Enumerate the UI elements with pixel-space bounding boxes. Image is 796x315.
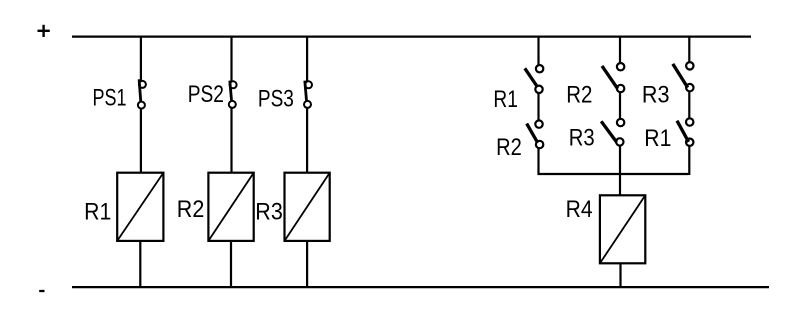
wire right branch2 bottom xyxy=(619,143,621,176)
relay coil R1 xyxy=(117,173,163,241)
contact R3 (branch2 bottom switch) xyxy=(601,119,624,146)
wire branch1 bottom xyxy=(139,240,141,288)
svg-text:R3: R3 xyxy=(642,81,670,108)
svg-text:R3: R3 xyxy=(255,199,282,226)
wire right branch3 middle xyxy=(688,88,690,122)
pushbutton PS2 xyxy=(229,81,237,108)
svg-text:R1: R1 xyxy=(644,125,671,152)
wire branch3 bottom xyxy=(306,240,308,288)
svg-text:R3: R3 xyxy=(569,124,595,151)
relay coil R3 xyxy=(285,173,330,241)
wire R4 bottom xyxy=(619,263,621,289)
pushbutton PS1 xyxy=(138,79,146,108)
svg-text:R2: R2 xyxy=(177,196,205,223)
svg-text:R2: R2 xyxy=(566,81,592,108)
wire branch2 top xyxy=(230,36,232,85)
svg-text:PS1: PS1 xyxy=(93,85,127,112)
wire branch1 top xyxy=(140,36,142,85)
svg-text:PS3: PS3 xyxy=(258,86,294,113)
wire branch2 middle xyxy=(230,105,232,174)
wire junction bar xyxy=(538,173,689,175)
wire branch1 middle xyxy=(140,106,142,174)
contact R1 (branch1 top switch) xyxy=(525,65,544,93)
svg-text:R4: R4 xyxy=(566,196,593,223)
wire bottom bus xyxy=(72,286,769,288)
wire right branch2 top xyxy=(619,36,621,67)
node - (negative bus label) xyxy=(39,290,44,292)
wire branch3 top xyxy=(306,36,308,85)
wire right branch1 bottom xyxy=(537,145,539,175)
svg-text:R1: R1 xyxy=(84,199,111,226)
node + (positive bus label) xyxy=(38,25,50,37)
wire right branch3 bottom xyxy=(688,143,690,176)
wire right branch1 middle xyxy=(537,90,539,124)
relay coil R4 xyxy=(600,195,645,263)
wire top bus xyxy=(72,35,751,37)
relay coil R2 xyxy=(208,173,253,241)
svg-text:R2: R2 xyxy=(496,134,522,161)
wire right branch1 top xyxy=(537,36,539,69)
contact R1 (branch3 bottom switch) xyxy=(677,118,693,146)
wire right branch2 middle xyxy=(619,89,621,122)
wire branch2 bottom xyxy=(230,240,232,288)
pushbutton PS3 xyxy=(304,81,312,108)
contact R3 (branch3 top switch) xyxy=(673,62,694,91)
svg-text:R1: R1 xyxy=(493,86,518,113)
wire right branch3 top xyxy=(688,36,690,66)
contact R2 (branch1 bottom switch) xyxy=(527,120,544,148)
contact R2 (branch2 top switch) xyxy=(602,63,624,92)
wire R4 top xyxy=(619,174,621,197)
wire branch3 middle xyxy=(306,105,308,174)
svg-text:PS2: PS2 xyxy=(188,81,224,108)
